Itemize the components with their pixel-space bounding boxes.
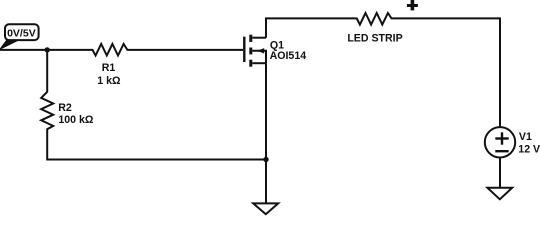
label V1	[519, 131, 532, 143]
svg-text:100 kΩ: 100 kΩ	[58, 114, 94, 126]
svg-text:1 kΩ: 1 kΩ	[97, 75, 121, 87]
value label 12 V	[518, 143, 540, 155]
wire: V1 negative terminal down to ground	[499, 158, 501, 188]
value label AOI514	[270, 50, 307, 62]
label LED STRIP	[347, 33, 402, 45]
node B junction dot at Q1 source and ground	[263, 157, 268, 162]
wire: Q1 source down through node B to ground	[265, 63, 267, 203]
svg-text:AOI514: AOI514	[270, 50, 307, 62]
label R1	[102, 62, 116, 74]
svg-text:R2: R2	[58, 102, 72, 114]
transistor Q1 N-MOSFET	[244, 35, 266, 67]
wire: input net with resistor R1 in line, left edge to gate of Q1	[0, 44, 243, 56]
value label 100 kΩ	[58, 114, 94, 126]
svg-text:LED STRIP: LED STRIP	[347, 33, 402, 45]
svg-text:12 V: 12 V	[518, 143, 540, 155]
plus polarity marker	[407, 0, 418, 10]
node A junction dot between input, R1 and R2	[45, 47, 50, 52]
svg-text:R1: R1	[102, 62, 116, 74]
wire: Q1 drain up, top rail with LED STRIP resistor, down to V1	[266, 13, 500, 127]
wire: node A down through resistor R2 to bottom rail, over to node B	[41, 50, 266, 160]
ground (under V1)	[487, 188, 512, 200]
svg-text:0V/5V: 0V/5V	[7, 28, 36, 40]
svg-text:V1: V1	[519, 131, 532, 143]
label R2	[58, 102, 72, 114]
ground (center)	[253, 203, 278, 214]
input flag 0V/5V	[0, 24, 39, 49]
voltage source V1	[485, 127, 515, 157]
label Q1	[270, 40, 284, 52]
value label 1 kΩ	[97, 75, 121, 87]
